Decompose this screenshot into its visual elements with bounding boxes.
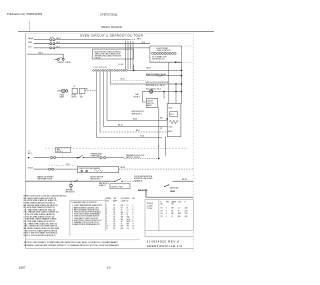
connector pin A2 [54,157,56,159]
svg-text:W-14: W-14 [121,78,125,80]
harness verticals to lower section [96,72,98,138]
thermal cutout TCO [57,58,59,60]
svg-text:W 8: W 8 [142,42,145,44]
junction motor a [163,91,165,93]
ground symbol [70,184,73,187]
wire L1 right segment [55,39,129,41]
note box NB1 [56,148,71,153]
svg-text:W-20 BK-14 BL-2: W-20 BK-14 BL-2 [146,89,161,91]
svg-text:BK-22: BK-22 [118,124,123,126]
frame bottom border [25,247,193,249]
svg-text:L1: L1 [178,208,180,210]
svg-text:3: 3 [166,213,167,215]
header rule [18,31,214,33]
wire light to harness dashed [85,90,97,92]
connector pin W-B [50,43,52,45]
harness horizontal y137 [97,137,163,139]
svg-text:2 120V: 2 120V [147,208,153,210]
console boundary dashed line [45,147,188,149]
vertical motor left drop [142,92,144,103]
svg-text:BK-9: BK-9 [169,131,173,133]
svg-text:OVEN CONTROL: OVEN CONTROL [157,50,171,52]
svg-text:CKT: CKT [178,201,181,203]
wire U1 to bus [176,61,182,63]
latch motor box LB1 [146,99,157,108]
vertical latch wire 1 [158,107,160,158]
wire motor to bus [153,91,181,93]
connector pin B2 [52,168,54,170]
frame right fold line [192,34,194,252]
svg-text:COIL: COIL [169,126,173,128]
svg-text:240: 240 [185,208,188,210]
light switch box S2 [79,88,85,93]
title block left edge [144,231,146,237]
right vertical bus [180,62,182,103]
wire C to fold [173,180,194,182]
svg-text:SW P5: SW P5 [72,96,77,98]
BX2 left pin dot [166,118,168,120]
svg-text:6 OVEN DOOR PLUNGER SWITCH: 6 OVEN DOOR PLUNGER SWITCH [72,216,100,218]
connector pin BK-A [50,39,52,41]
svg-text:CODE: CODE [121,200,127,202]
wire L3 right segment [55,47,150,49]
svg-text:P3: P3 [161,216,163,218]
svg-text:SEE NOTE 3: SEE NOTE 3 [132,114,142,116]
harness bundle B1 [125,41,127,69]
svg-text:240: 240 [185,216,188,218]
U1 dashed extension top [181,45,193,47]
switch S3 [78,155,83,158]
frame left border [24,34,26,249]
strip feed stub [133,65,135,71]
connector pin A4 [104,157,106,159]
svg-text:BK W R BL GY: BK W R BL GY [152,58,165,60]
wire to fold y197 [146,196,193,198]
junction bake element [181,75,183,77]
svg-text:W-1: W-1 [86,88,89,90]
wire A segment 2 [56,157,81,159]
svg-text:AWG: AWG [113,199,118,202]
svg-text:SEE: SEE [57,149,60,151]
svg-text:120: 120 [185,213,188,215]
svg-text:SPST SW N.O. BK-12: SPST SW N.O. BK-12 [146,85,165,87]
door switch box S1 [72,88,78,93]
svg-text:BK-28: BK-28 [182,179,187,181]
svg-text:BK-30: BK-30 [170,191,175,193]
svg-text:18: 18 [113,228,115,230]
vertical into BX2 right [175,84,177,104]
vertical into latch box [163,92,165,99]
svg-text:BK-A: BK-A [28,37,33,40]
BX2 heater element symbol [169,120,178,123]
dashed wire y80 [113,79,146,81]
svg-text:11: 11 [132,228,134,230]
title block rule [145,236,193,238]
svg-text:RY1: RY1 [170,114,173,116]
svg-text:SEE NOTE 5: SEE NOTE 5 [66,192,76,194]
EOC note box [92,49,133,59]
connector pin R-1 [53,47,55,49]
LB3 pin 2 [86,170,88,172]
wire to fold y197 [146,196,193,198]
svg-text:BK-9: BK-9 [136,130,140,132]
svg-text:2: 2 [166,210,167,212]
wire motor left [143,91,150,93]
wire C middle band [25,180,113,182]
junction motor bus [181,91,183,93]
BX2 inner box [170,112,178,117]
connector pin W-1 [53,43,55,45]
junction latch end 1 [158,158,160,160]
junction W-14 x176 [175,83,177,85]
wire A segment 4 [106,157,124,159]
wire A segment 3 [83,157,100,159]
svg-text:SW: SW [178,213,181,215]
svg-text:1 3 5 7 9 11 13 15: 1 3 5 7 9 11 13 15 [93,67,107,69]
svg-text:2 4 6 8: 2 4 6 8 [118,64,123,66]
svg-text:12/07: 12/07 [19,265,26,269]
legend middle panel borders [69,200,71,236]
latch switch symbol [165,185,169,187]
NB1 dashed drop [62,153,64,158]
svg-text:BK-16: BK-16 [146,67,151,69]
bake element [146,75,181,77]
wire C dashed [122,180,140,182]
note box NB2 [110,184,130,189]
svg-text:WIRING DIAGRAM: WIRING DIAGRAM [101,26,122,29]
svg-text:SEE NOTE 4: SEE NOTE 4 [90,179,100,181]
U1 connector pins [152,52,154,54]
switch S4 [115,178,121,181]
wire B segment 2 [54,168,77,170]
stub into latch box [143,101,147,103]
oven light bulb [62,89,66,93]
ground drop from wire C [70,181,72,184]
vertical branch x168 [168,62,170,103]
table T2 divider [158,200,160,231]
svg-text:8 ELECTRONIC OVEN CONTROL EOC: 8 ELECTRONIC OVEN CONTROL EOC [72,220,103,222]
svg-text:NOTE 3: NOTE 3 [134,97,140,99]
latch circuit drop [145,190,147,198]
svg-text:NOTE 1 / P100: NOTE 1 / P100 [111,186,123,188]
wire L1 feed drop [62,54,64,58]
wire B upper dashed [49,164,77,166]
svg-text:SHEET 2: SHEET 2 [99,185,106,187]
svg-text:1-6: 1-6 [107,265,111,269]
svg-text:VIA POWER CORD: VIA POWER CORD [37,178,53,181]
svg-text:DE 200: DE 200 [95,58,101,60]
junction strip out [133,70,135,72]
electronic oven control box U1 [150,46,182,62]
svg-text:Publication No: 5995434683: Publication No: 5995434683 [7,12,43,16]
svg-text:GROUND: GROUND [66,190,74,192]
svg-text:R-18: R-18 [141,136,145,138]
table T2 outer box [145,200,193,231]
svg-text:4: 4 [158,146,159,148]
svg-text:BK-26: BK-26 [121,167,126,169]
wire W-14 row [111,83,182,85]
latch circuit drop [145,190,147,198]
svg-text:NOTICE: DISCONNECT POWER BEFOR: NOTICE: DISCONNECT POWER BEFORE SERVICIN… [24,241,119,244]
junction U1 output [175,62,177,64]
svg-text:NOTE 4: NOTE 4 [57,151,63,153]
svg-text:W-20: W-20 [133,118,137,120]
svg-text:BK 5: BK 5 [137,38,141,40]
relay module box BX2 [167,104,181,137]
svg-text:P1: P1 [161,208,163,210]
wire B middle band [34,168,49,170]
svg-text:CODES AND USE OF CIRCUITS: CODES AND USE OF CIRCUITS [71,201,97,204]
connector strip P3 [93,70,95,72]
svg-text:OVEN DOOR LATCH ASSY: OVEN DOOR LATCH ASSY [79,167,101,170]
wire L1 feed horizontal [27,53,63,55]
harness horizontal y126 [104,126,168,128]
wire L2 right segment [55,43,150,45]
svg-text:P5: P5 [74,86,76,88]
connector pin A1 [51,157,53,159]
svg-text:5: 5 [166,216,167,218]
svg-text:N W-2: N W-2 [28,167,33,169]
svg-text:120: 120 [185,210,188,212]
U1 bottom dashes [151,60,181,62]
connector pin B1 [49,168,51,170]
svg-text:NOTE 5: VOIR LA FICHE TECHNIQU: NOTE 5: VOIR LA FICHE TECHNIQUE CI [24,234,57,237]
svg-text:DE FAIRE L ENTRETIEN. WIRING S: DE FAIRE L ENTRETIEN. WIRING SUBJECT TO … [24,244,120,247]
svg-text:OVEN VENT: OVEN VENT [90,156,100,158]
wire to oven light [57,90,62,92]
wire L3 left segment [34,47,50,49]
svg-text:P2: P2 [161,213,163,215]
svg-text:CFEF372EQ2: CFEF372EQ2 [100,13,118,17]
wire L1 left segment [34,39,50,41]
wire strip to bus [128,69,182,71]
svg-text:P1: P1 [161,210,163,212]
svg-text:1: 1 [166,208,167,210]
wire A dashed under caption [124,157,159,159]
wire A middle band [34,157,50,159]
svg-text:L1: L1 [28,150,30,152]
svg-text:BK-7: BK-7 [28,153,32,155]
junction W-14 bus [181,83,183,85]
harness horizontal y132 dashed [100,131,169,133]
svg-text:11: 11 [106,228,108,230]
vertical from BX2 bottom [164,137,166,157]
junction bus strip [181,70,183,72]
connector pin BK-1 [53,39,55,41]
wire B dashed to fold [119,168,194,170]
latch motor M1 [150,90,153,93]
disclaimer rule [25,239,140,241]
wire table T1 left border [104,198,106,232]
fold tick mark [29,21,31,32]
wire C break symbol [74,180,78,182]
svg-text:LATCH SW: LATCH SW [170,186,179,189]
wire L2 left segment [34,43,50,45]
svg-text:NOTE 1 2 4PM: NOTE 1 2 4PM [58,62,71,64]
frame top border [25,33,193,35]
junction motor x176 [175,91,177,93]
svg-text:7: 7 [165,145,166,147]
oven door latch assembly box LB3 [77,167,118,173]
svg-text:MDL DOOR LOCK MOTOR: MDL DOOR LOCK MOTOR [146,82,169,84]
connector pin R-C [50,47,52,49]
svg-text:W-2: W-2 [66,164,69,166]
LB3 pin 1 [81,170,83,172]
U1 dashed extension bottom [181,61,193,63]
wire A terminal dot [28,157,29,158]
svg-text:SHEET/FEUILLE:1/2: SHEET/FEUILLE:1/2 [147,244,183,248]
connector pin A3 [100,157,102,159]
svg-text:314934920 REV:A: 314934920 REV:A [147,239,180,243]
svg-text:LT: LT [80,94,82,96]
svg-text:OVEN CIRCUIT || DEFROST DC TOU: OVEN CIRCUIT || DEFROST DC TOUR [80,33,144,37]
harness horizontal y120 [107,120,167,122]
